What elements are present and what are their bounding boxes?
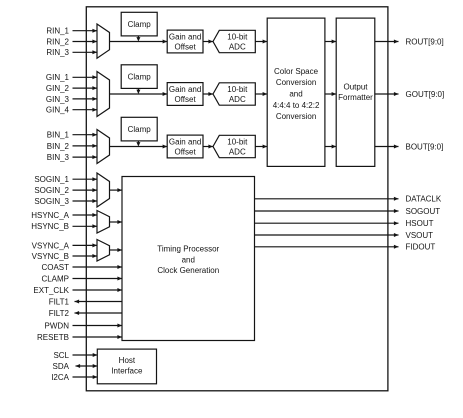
svg-text:FILT2: FILT2 (49, 309, 70, 318)
wire GIN_4 (73, 108, 98, 112)
host interface block (97, 349, 156, 384)
wire FILT1 (75, 300, 123, 304)
svg-text:Gain and: Gain and (169, 33, 201, 42)
wire output ROUT (375, 40, 399, 44)
wire GIN_1 (73, 75, 98, 79)
pin label ROUT[9:0] (406, 37, 444, 46)
svg-text:RESETB: RESETB (37, 333, 69, 342)
svg-text:Gain and: Gain and (169, 138, 201, 147)
svg-text:FILT1: FILT1 (49, 297, 70, 306)
pin label COAST (41, 263, 69, 272)
svg-text:and: and (182, 256, 195, 265)
clamp block red (121, 12, 157, 36)
wire ADC red to color space conversion (255, 40, 267, 44)
gain and offset block green (167, 83, 203, 106)
wire SCL (73, 353, 98, 357)
wire SOGIN_3 (73, 199, 98, 203)
svg-text:I2CA: I2CA (51, 373, 69, 382)
svg-text:SOGIN_2: SOGIN_2 (34, 186, 69, 195)
pin label I2CA (51, 373, 69, 382)
svg-text:Host: Host (119, 356, 136, 365)
wire GIN_2 (73, 86, 98, 90)
pin label SDA (53, 362, 70, 371)
gain and offset block red (167, 30, 203, 53)
svg-text:10-bit: 10-bit (227, 85, 248, 94)
mux HSYNC (97, 211, 110, 234)
pin label DATACLK (406, 195, 442, 204)
wire RIN_3 (73, 50, 98, 54)
svg-text:10-bit: 10-bit (227, 138, 248, 147)
svg-text:BIN_3: BIN_3 (47, 153, 70, 162)
mux VSYNC (97, 240, 110, 262)
wire BIN_2 (73, 144, 98, 148)
svg-text:COAST: COAST (41, 263, 69, 272)
svg-text:Clamp: Clamp (128, 73, 152, 82)
pin label FIDOUT (406, 243, 436, 252)
svg-text:ADC: ADC (229, 43, 246, 52)
svg-text:VSYNC_B: VSYNC_B (32, 252, 69, 261)
svg-text:BIN_1: BIN_1 (47, 131, 70, 140)
svg-text:ADC: ADC (229, 148, 246, 157)
wire output SOGOUT (255, 209, 399, 213)
svg-text:GOUT[9:0]: GOUT[9:0] (406, 90, 445, 99)
pin label GIN_1 (46, 73, 70, 82)
pin label GIN_3 (46, 95, 70, 104)
svg-text:BIN_2: BIN_2 (47, 142, 70, 151)
pin label RIN_2 (46, 37, 69, 46)
pin label HSYNC_A (31, 211, 69, 220)
svg-text:SCL: SCL (53, 351, 69, 360)
svg-text:RIN_3: RIN_3 (46, 48, 69, 57)
pin label FILT1 (49, 297, 70, 306)
svg-text:HSYNC_A: HSYNC_A (31, 211, 69, 220)
wire mux SOGIN to timing processor (110, 188, 123, 192)
svg-text:Conversion: Conversion (276, 112, 316, 121)
svg-text:Offset: Offset (174, 43, 196, 52)
pin label RIN_1 (46, 27, 69, 36)
svg-text:VSOUT: VSOUT (406, 231, 434, 240)
clamp block blue (121, 117, 157, 141)
pin label PWDN (45, 321, 70, 330)
wire RIN_1 (73, 29, 98, 33)
svg-text:Interface: Interface (111, 367, 143, 376)
pin label HSYNC_B (31, 222, 69, 231)
wire HSYNC_B (73, 224, 98, 228)
svg-text:GIN_1: GIN_1 (46, 73, 70, 82)
pin label SOGIN_3 (34, 197, 69, 206)
wire color space conversion to output formatter (blue) (325, 145, 336, 149)
svg-text:PWDN: PWDN (45, 321, 70, 330)
ADC block red (213, 30, 255, 52)
pin label RIN_3 (46, 48, 69, 57)
pin label SOGIN_1 (34, 175, 69, 184)
svg-text:FIDOUT: FIDOUT (406, 243, 436, 252)
wire output BOUT (375, 145, 399, 149)
svg-text:SDA: SDA (53, 362, 70, 371)
wire mux green to gain/offset green (110, 92, 168, 96)
svg-text:and: and (289, 90, 302, 99)
svg-text:RIN_2: RIN_2 (46, 37, 69, 46)
pin label RESETB (37, 333, 69, 342)
wire output GOUT (375, 92, 399, 96)
wire gain/offset green to ADC green (203, 92, 213, 96)
svg-text:4:4:4 to 4:2:2: 4:4:4 to 4:2:2 (273, 101, 320, 110)
wire color space conversion to output formatter (red) (325, 40, 336, 44)
wire output HSOUT (255, 221, 399, 225)
svg-text:GIN_4: GIN_4 (46, 106, 70, 115)
timing processor block U-timing (122, 177, 255, 341)
wire mux blue to gain/offset blue (110, 145, 168, 149)
svg-text:GIN_3: GIN_3 (46, 95, 70, 104)
wire RESETB (73, 335, 123, 339)
pin label CLAMP (41, 274, 69, 283)
svg-text:SOGIN_1: SOGIN_1 (34, 175, 69, 184)
svg-text:EXT_CLK: EXT_CLK (33, 286, 69, 295)
svg-text:Offset: Offset (174, 148, 196, 157)
color space conversion block (267, 18, 325, 166)
wire mux red to gain/offset red (110, 40, 168, 44)
pin label HSOUT (406, 219, 434, 228)
svg-text:10-bit: 10-bit (227, 33, 248, 42)
wire output DATACLK (255, 197, 399, 201)
pin label BIN_1 (47, 131, 70, 140)
wire RIN_2 (73, 40, 98, 44)
svg-text:Clock Generation: Clock Generation (157, 266, 219, 275)
wire GIN_3 (73, 97, 98, 101)
mux blue channel (97, 130, 110, 164)
wire output VSOUT (255, 233, 399, 237)
wire clamp blue to channel (136, 141, 140, 147)
pin label VSYNC_B (32, 252, 69, 261)
pin label BOUT[9:0] (406, 142, 444, 151)
wire BIN_3 (73, 155, 98, 159)
output formatter block (336, 18, 375, 166)
wire VSYNC_B (73, 254, 98, 258)
svg-text:SOGIN_3: SOGIN_3 (34, 197, 69, 206)
pin label GIN_4 (46, 106, 70, 115)
wire VSYNC_A (73, 243, 98, 247)
wire FILT2 (75, 311, 123, 315)
svg-text:Gain and: Gain and (169, 85, 201, 94)
wire output FIDOUT (255, 245, 399, 249)
svg-text:Timing Processor: Timing Processor (157, 245, 219, 254)
wire HSYNC_A (73, 213, 98, 217)
pin label BIN_3 (47, 153, 70, 162)
svg-text:Clamp: Clamp (128, 125, 152, 134)
pin label VSOUT (406, 231, 434, 240)
ADC block blue (213, 135, 255, 157)
wire I2CA (73, 375, 98, 379)
pin label SCL (53, 351, 69, 360)
mux SOGIN (97, 173, 110, 207)
mux red channel (97, 24, 110, 58)
wire clamp red to channel (136, 36, 140, 42)
svg-text:DATACLK: DATACLK (406, 195, 442, 204)
svg-text:Conversion: Conversion (276, 78, 316, 87)
svg-text:GIN_2: GIN_2 (46, 84, 70, 93)
ADC block green (213, 83, 255, 105)
pin label GOUT[9:0] (406, 90, 445, 99)
wire SDA (bidirectional) (76, 364, 98, 368)
wire COAST (73, 265, 123, 269)
gain and offset block blue (167, 135, 203, 158)
mux green channel (97, 72, 110, 117)
svg-text:Color Space: Color Space (274, 67, 319, 76)
svg-text:BOUT[9:0]: BOUT[9:0] (406, 142, 444, 151)
svg-text:RIN_1: RIN_1 (46, 27, 69, 36)
chip boundary (86, 7, 388, 391)
wire PWDN (73, 324, 123, 328)
svg-text:ADC: ADC (229, 95, 246, 104)
wire BIN_1 (73, 133, 98, 137)
svg-text:VSYNC_A: VSYNC_A (32, 241, 70, 250)
svg-text:HSYNC_B: HSYNC_B (31, 222, 69, 231)
svg-text:Offset: Offset (174, 95, 196, 104)
wire mux VSYNC to timing processor (110, 248, 123, 252)
svg-text:Formatter: Formatter (338, 93, 373, 102)
wire clamp green to channel (136, 88, 140, 94)
svg-text:Output: Output (343, 82, 368, 91)
svg-text:HSOUT: HSOUT (406, 219, 434, 228)
wire EXT_CLK (73, 288, 123, 292)
wire ADC green to color space conversion (255, 92, 267, 96)
pin label BIN_2 (47, 142, 70, 151)
wire SOGIN_2 (73, 188, 98, 192)
wire gain/offset red to ADC red (203, 40, 213, 44)
svg-text:CLAMP: CLAMP (41, 274, 69, 283)
pin label SOGOUT (406, 207, 441, 216)
wire ADC blue to color space conversion (255, 145, 267, 149)
wire CLAMP (73, 277, 123, 281)
pin label SOGIN_2 (34, 186, 69, 195)
pin label GIN_2 (46, 84, 70, 93)
wire SOGIN_1 (73, 177, 98, 181)
clamp block green (121, 65, 157, 89)
wire gain/offset blue to ADC blue (203, 145, 213, 149)
wire color space conversion to output formatter (green) (325, 92, 336, 96)
svg-text:SOGOUT: SOGOUT (406, 207, 441, 216)
svg-text:ROUT[9:0]: ROUT[9:0] (406, 37, 444, 46)
pin label VSYNC_A (32, 241, 70, 250)
wire mux HSYNC to timing processor (110, 220, 123, 224)
pin label EXT_CLK (33, 286, 69, 295)
svg-text:Clamp: Clamp (128, 20, 152, 29)
pin label FILT2 (49, 309, 70, 318)
